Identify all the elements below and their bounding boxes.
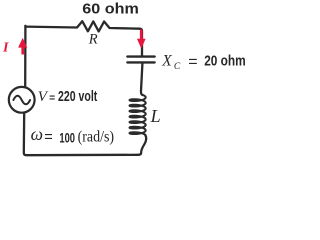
svg-text:=: = [188,53,197,70]
svg-text:I: I [2,40,9,55]
svg-text:=: = [49,93,55,104]
svg-text:220 volt: 220 volt [58,89,97,105]
svg-text:C: C [174,62,181,72]
svg-text:100: 100 [59,129,75,145]
svg-text:V: V [38,89,49,105]
svg-text:R: R [88,32,98,48]
svg-text:20 ohm: 20 ohm [204,54,246,70]
svg-text:L: L [150,106,161,126]
svg-text:60 ohm: 60 ohm [82,2,139,18]
svg-text:(rad/s): (rad/s) [78,128,115,145]
svg-text:=: = [44,130,52,146]
svg-text:X: X [161,52,172,69]
svg-text:ω: ω [31,124,43,144]
